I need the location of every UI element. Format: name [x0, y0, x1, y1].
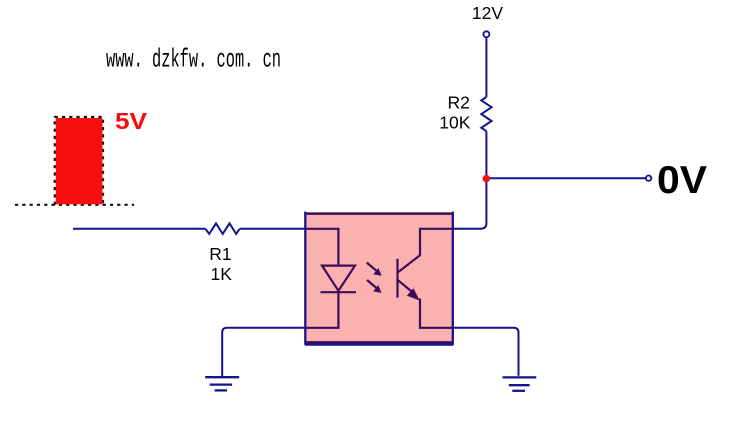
svg-text:1K: 1K — [211, 264, 233, 284]
svg-text:R1: R1 — [209, 244, 231, 264]
svg-text:R2: R2 — [448, 93, 470, 113]
svg-text:www. dzkfw. com. cn: www. dzkfw. com. cn — [106, 44, 281, 74]
svg-text:10K: 10K — [439, 113, 470, 133]
svg-text:0V: 0V — [657, 159, 707, 202]
svg-text:5V: 5V — [115, 108, 148, 134]
svg-text:12V: 12V — [472, 3, 503, 23]
